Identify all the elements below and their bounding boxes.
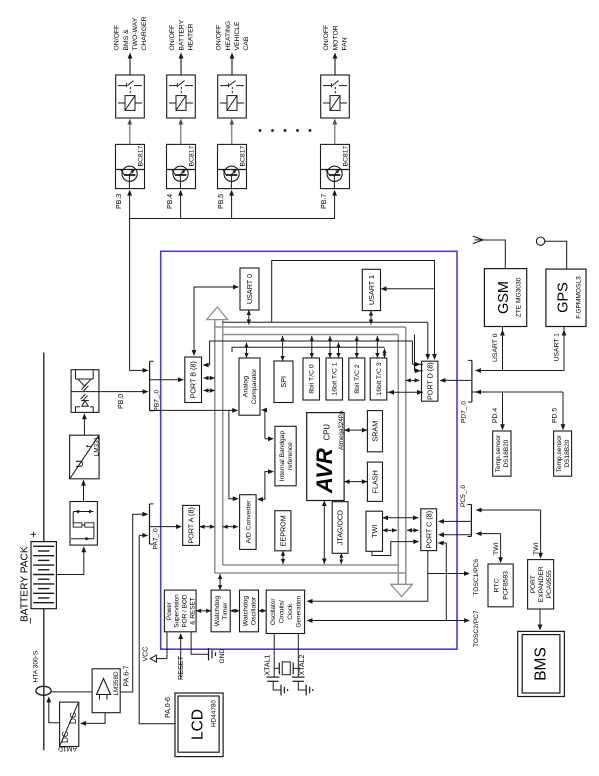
svg-text:ON/OFF: ON/OFF (323, 25, 330, 51)
wire T/C0 to bus (311, 336, 313, 358)
svg-text:SPI: SPI (279, 376, 288, 388)
svg-text:A/D Converter: A/D Converter (245, 500, 252, 544)
wire bus to A/D (223, 526, 238, 528)
svg-text:TOSC1/PC6: TOSC1/PC6 (473, 559, 480, 596)
wire PC pins to PORT C a (438, 519, 471, 524)
svg-text:PORT A (8): PORT A (8) (187, 507, 196, 543)
svg-text:HTA 300-S: HTA 300-S (33, 650, 40, 682)
RTC PCF8583 (488, 564, 513, 607)
svg-text:Power: Power (166, 601, 173, 620)
svg-text:PB.4: PB.4 (167, 194, 174, 209)
node PC5...0 pin group (470, 505, 472, 537)
wire T/C1 to bus a (329, 336, 331, 358)
GPS module F.GPMMOSL3 (546, 269, 586, 326)
node PA7...0 pin group (149, 504, 151, 544)
temp sensor DS18B20 (2) (554, 431, 572, 476)
JTAG/OCD (332, 502, 348, 554)
svg-text:ON/OFF: ON/OFF (114, 25, 121, 51)
wire TWI to bus (383, 529, 398, 531)
svg-text:DC: DC (61, 731, 70, 743)
svg-text:FAN: FAN (342, 37, 349, 50)
16bit T/C 1 box (326, 358, 343, 400)
wire TOSC2/PC7 (307, 541, 471, 623)
wire USART 0 to PD pins (475, 327, 564, 373)
PORT D (8) register (422, 361, 438, 401)
svg-text:ON/OFF: ON/OFF (216, 25, 223, 51)
svg-text:SRAM: SRAM (371, 421, 380, 442)
svg-text:FLASH: FLASH (371, 470, 380, 493)
wire CPU-FLASH (344, 481, 367, 483)
svg-text:EXPANDER: EXPANDER (538, 566, 545, 602)
svg-text:RTC: RTC (494, 578, 501, 592)
svg-text:USART 1: USART 1 (554, 333, 561, 362)
wire GSM antenna (473, 236, 506, 269)
wire relay output PB.3 (128, 53, 133, 76)
wire PA pin-group to PORT A (150, 524, 183, 529)
wire sensor to LM358D (51, 691, 92, 693)
wire bus line L4 (232, 347, 385, 352)
wire relay output PB.4 (179, 53, 184, 76)
svg-text:BC817: BC817 (240, 145, 247, 166)
wire comparator-bandgap (261, 408, 274, 442)
wire USART0 to PORT B top (192, 285, 239, 356)
svg-text:PD.5: PD.5 (552, 408, 559, 423)
wire T/C3 to bus b (384, 349, 386, 359)
svg-text:& RESET: & RESET (189, 597, 196, 624)
16bit T/C 3 box (370, 358, 387, 400)
svg-text:TWO-WAY: TWO-WAY (132, 17, 139, 50)
svg-text:GSM: GSM (496, 281, 512, 314)
SPI box (274, 361, 293, 403)
wire TWI to port expander (476, 508, 543, 559)
svg-text:U: U (74, 460, 86, 468)
wire base from PB bus PB.3 (127, 190, 132, 219)
svg-text:PORT: PORT (530, 575, 537, 593)
USART 0 (240, 268, 259, 310)
wire base from PB bus PB.4 (178, 190, 183, 219)
svg-text:BC817: BC817 (138, 145, 145, 166)
wire watchdogosc-oscillator (259, 610, 267, 612)
relay module for PB.5 (218, 75, 247, 118)
port expander PCA9555 (528, 560, 554, 609)
transistor BC817 (PB.3 driver) (116, 144, 145, 188)
svg-text:+: + (28, 531, 40, 537)
svg-text:CHARGER: CHARGER (141, 16, 148, 50)
label - terminal (25, 618, 37, 624)
svg-text:Temp.sensor: Temp.sensor (556, 434, 563, 472)
svg-text:PB.7: PB.7 (321, 194, 328, 209)
svg-text:CAB: CAB (243, 36, 250, 50)
wire transistor to relay PB.5 (229, 119, 234, 145)
svg-text:JTAG/OCD: JTAG/OCD (338, 510, 345, 545)
svg-text:Comparator: Comparator (251, 368, 258, 405)
wire USART1 input (381, 286, 435, 291)
svg-text:BC817: BC817 (343, 145, 350, 166)
voltage divider network box (70, 502, 97, 546)
wire JTAG to bus (340, 553, 342, 564)
wire expander to BMS (538, 609, 543, 631)
wire PORT A to bus a (200, 526, 215, 528)
svg-text:AVR: AVR (312, 448, 337, 494)
svg-text:DS18B20: DS18B20 (564, 439, 571, 467)
capacitor XTAL1 load (267, 677, 288, 695)
wire LM358D to PA pins (120, 514, 144, 692)
wire comparator to bus (246, 343, 248, 359)
internal data bus ring (215, 320, 406, 585)
wire to PORT D top pin b (432, 289, 437, 360)
wire TWI bottom to PORT C (372, 539, 419, 555)
wire T/C1 to bus b (338, 343, 340, 359)
wire TWI to RTC (476, 531, 503, 563)
Power Supervision POR/BOD & RESET (164, 590, 196, 632)
dots (more channels) (259, 129, 312, 132)
svg-text:Analog: Analog (243, 376, 250, 397)
svg-text:HEATER: HEATER (188, 23, 195, 50)
svg-text:PB7_.0: PB7_.0 (154, 390, 161, 412)
svg-text:8bit T/C 2: 8bit T/C 2 (354, 364, 361, 394)
TWI (366, 511, 383, 551)
wire L3 to PORT B (203, 360, 210, 367)
wire LM331 to optocoupler (82, 413, 87, 435)
svg-text:8bit T/C 0: 8bit T/C 0 (309, 364, 316, 394)
svg-text:PC5_.0: PC5_.0 (460, 485, 467, 507)
svg-text:TWI: TWI (370, 525, 379, 538)
wire L2 right to PORT D (415, 335, 424, 374)
svg-text:16bit T/C 3: 16bit T/C 3 (376, 362, 383, 395)
svg-text:F.GPMMOSL3: F.GPMMOSL3 (576, 276, 583, 319)
svg-text:Oscillator: Oscillator (251, 596, 258, 625)
svg-text:PORT B (8): PORT B (8) (189, 361, 198, 398)
svg-text:Watchdog: Watchdog (214, 596, 221, 627)
svg-text:XTAL2: XTAL2 (299, 655, 306, 676)
Watchdog Timer (211, 590, 230, 632)
wire PORT D bus arrow (406, 379, 420, 381)
wire SPI to bus (282, 336, 284, 361)
svg-text:Circuits/: Circuits/ (279, 600, 286, 623)
wire LM358D supply from DC/DC (80, 713, 105, 726)
optocoupler (battery voltage isolation) (71, 370, 99, 413)
wire to PORT D top pin a (425, 322, 430, 360)
svg-text:HD44780: HD44780 (211, 700, 218, 727)
svg-text:PORT C (8): PORT C (8) (424, 511, 433, 549)
wire transistor to relay PB.7 (332, 119, 337, 145)
wire bus to PORT C (407, 529, 419, 531)
ATmega324PA chip boundary (161, 251, 457, 649)
current sensor HTA300-S (36, 686, 51, 695)
wire PD pin-group to PORT D (440, 378, 472, 383)
wire A/D-bandgap (257, 469, 274, 502)
svg-text:CPU: CPU (323, 424, 332, 441)
capacitor XTAL2 load (292, 677, 313, 695)
wire relay output PB.7 (333, 53, 338, 76)
Oscillator Circuits / Clock Generation (266, 590, 304, 633)
wire battery positive rail (43, 353, 45, 542)
label output ON/OFF MOTOR FAN (323, 25, 348, 51)
transistor BC817 (PB.4 driver) (167, 144, 196, 188)
wire PA.0-6 to LCD (139, 534, 144, 536)
svg-text:Oscillator: Oscillator (270, 598, 277, 626)
svg-text:USART 0: USART 0 (245, 274, 254, 304)
Watchdog Oscillator (240, 590, 259, 632)
wire PB.0 optocoupler to PORT B pins (99, 389, 149, 394)
wire PB.3-PB.7 bus to PORT B pins (130, 219, 335, 371)
wire TOSC1/PC6 (307, 551, 471, 604)
wire base from PB bus PB.7 (332, 190, 337, 219)
data bus arrow (down) (391, 584, 413, 596)
U/f converter LM331 (70, 435, 101, 479)
svg-text:ON/OFF: ON/OFF (169, 25, 176, 51)
svg-text:BMS &: BMS & (123, 29, 130, 51)
power VCC (150, 632, 167, 662)
svg-text:POR / BOD: POR / BOD (182, 594, 189, 627)
wire supervision-watchdog (196, 610, 211, 612)
svg-text:EEPROM: EEPROM (278, 515, 287, 546)
svg-text:LM358D: LM358D (113, 671, 120, 696)
AVR CPU (Atmega324PA) (307, 410, 345, 501)
transistor BC817 (PB.5 driver) (218, 144, 247, 188)
wire base from PB bus PB.5 (229, 190, 234, 219)
SRAM (367, 411, 382, 452)
svg-text:USART 1: USART 1 (367, 275, 376, 305)
wire relay output PB.5 (230, 53, 235, 76)
EEPROM (275, 511, 291, 551)
svg-text:Clock: Clock (287, 603, 294, 620)
USART 1 (362, 269, 380, 310)
svg-text:Generation: Generation (295, 596, 302, 628)
node PB7...0 pin group (149, 361, 151, 411)
wire GPS antenna (536, 237, 566, 269)
wire battery tap to voltage divider (56, 546, 86, 574)
svg-text:RESET: RESET (176, 655, 185, 680)
wire TWI to PORT C (383, 517, 419, 519)
wire CPU to bus (323, 501, 325, 565)
wire divider to LM331 (81, 480, 86, 502)
transistor BC817 (PB.7 driver) (321, 144, 350, 188)
wire transistor to relay PB.3 (127, 119, 132, 145)
svg-text:HEATING: HEATING (225, 21, 232, 51)
LCD HD44780 (175, 693, 223, 757)
svg-text:GND: GND (219, 649, 226, 664)
svg-text:GPS: GPS (556, 282, 572, 313)
svg-text:Supervision: Supervision (174, 594, 181, 628)
Internal Bandgap reference (275, 426, 296, 486)
svg-text:BMS: BMS (533, 647, 550, 681)
label output ON/OFF HEATING VEHICLE CAB (216, 21, 251, 51)
svg-text:16bit T/C 1: 16bit T/C 1 (332, 362, 339, 395)
svg-text:TOSC2/PC7: TOSC2/PC7 (473, 610, 480, 647)
svg-text:AM1D: AM1D (58, 745, 77, 752)
wire RESET input (178, 633, 183, 679)
svg-text:BATTERY PACK: BATTERY PACK (20, 546, 31, 622)
wire USART1 to bus (370, 311, 372, 325)
op-amp LM358D (92, 669, 120, 713)
wire watchdog to bus (219, 574, 221, 590)
GSM module ZTE MG3030 (484, 269, 526, 327)
svg-text:MOTOR: MOTOR (332, 25, 339, 50)
DC/DC converter AM1D (60, 702, 79, 746)
wire comparator line to A/D (229, 410, 239, 501)
wire EEPROM to bus (282, 551, 284, 564)
wire USART0 to bus (248, 310, 250, 325)
svg-text:Timer: Timer (222, 602, 229, 620)
label output ON/OFF BATTERY HEATER (169, 19, 194, 50)
wire USART 1 to PD pins (562, 327, 567, 371)
wire L3 to PORT D (412, 362, 423, 367)
node PD7...0 pin group (471, 360, 473, 402)
relay module for PB.3 (116, 75, 145, 118)
FLASH (367, 462, 382, 501)
svg-text:Atmega324PA: Atmega324PA (338, 410, 345, 450)
wire PC pins to PORT C b (438, 532, 471, 537)
temp sensor DS18B20 (1) (493, 431, 511, 476)
svg-text:BC817: BC817 (189, 145, 196, 166)
svg-text:PB.5: PB.5 (218, 194, 225, 209)
svg-text:PD.4: PD.4 (492, 408, 499, 423)
svg-text:PB.0: PB.0 (118, 394, 125, 409)
wire PORT B bus arrows (204, 376, 215, 393)
wire battery negative rail (43, 609, 45, 751)
relay module for PB.4 (167, 75, 196, 118)
Analog Comparator box (239, 358, 260, 415)
wire T/C3 to PORT D (387, 391, 423, 393)
wire transistor to relay PB.4 (178, 119, 183, 145)
A/D Converter (240, 495, 257, 550)
svg-text:Temp.sensor: Temp.sensor (495, 434, 502, 472)
wire USART0 - PORT D link (outer) (272, 261, 435, 323)
svg-text:PB.3: PB.3 (116, 194, 123, 209)
wire bus line L3 (210, 341, 413, 364)
svg-text:TWI: TWI (533, 542, 540, 555)
wire DC/DC to sensor supply (46, 696, 59, 722)
svg-text:PCA9555: PCA9555 (546, 570, 553, 599)
svg-text:VEHICLE: VEHICLE (234, 21, 241, 51)
label output ON/OFF BMS & TWO-WAY CHARGER (114, 16, 149, 50)
svg-text:Watchdog: Watchdog (242, 596, 249, 627)
wire bus line L1 (223, 321, 428, 323)
svg-text:BATTERY: BATTERY (178, 19, 185, 50)
svg-text:PD7_.0: PD7_.0 (461, 401, 468, 423)
svg-text:PA.0-6: PA.0-6 (165, 697, 172, 718)
data bus arrow (up) (207, 307, 228, 320)
svg-text:VCC: VCC (143, 647, 150, 662)
PORT C (8) register (421, 509, 437, 551)
wire PD.4 / PD.5 to temp sensors (472, 390, 566, 431)
relay module for PB.7 (321, 75, 350, 118)
svg-text:LCD: LCD (190, 709, 207, 740)
svg-text:LM331: LM331 (93, 436, 100, 456)
svg-text:DS18B20: DS18B20 (503, 439, 510, 467)
BMS box (518, 631, 565, 696)
crystal XTAL1/XTAL2 (274, 634, 298, 678)
wire PB pins to comparator (150, 408, 239, 413)
svg-text:PA7_.0: PA7_.0 (153, 528, 160, 549)
svg-text:PCF8583: PCF8583 (503, 571, 510, 600)
svg-text:PA.6-7: PA.6-7 (124, 666, 131, 687)
wire watchdog-oscillator (230, 610, 239, 612)
svg-text:USART 0: USART 0 (492, 333, 499, 362)
8bit T/C 0 box (303, 358, 320, 400)
svg-text:TWI: TWI (493, 542, 500, 555)
wire T/C2 to bus (356, 336, 358, 358)
PORT A (8) register (183, 505, 200, 545)
label + terminal (28, 531, 40, 537)
wire T/C3 to bus a (376, 336, 378, 358)
svg-text:PORT D (8): PORT D (8) (425, 362, 434, 400)
8bit T/C 2 box (349, 358, 365, 400)
ground GND (supervision) (191, 632, 215, 661)
svg-text:reference: reference (287, 442, 294, 470)
svg-text:DC: DC (69, 712, 78, 724)
wire CPU-SRAM (344, 429, 367, 431)
svg-text:XTAL1: XTAL1 (265, 655, 272, 676)
wire PB pin-group to PORT B (150, 377, 184, 382)
svg-text:Internal Bandgap: Internal Bandgap (279, 431, 286, 482)
battery pack cells (31, 542, 56, 609)
PORT B (8) register (185, 357, 202, 403)
svg-text:ZTE MG3030: ZTE MG3030 (516, 277, 523, 317)
